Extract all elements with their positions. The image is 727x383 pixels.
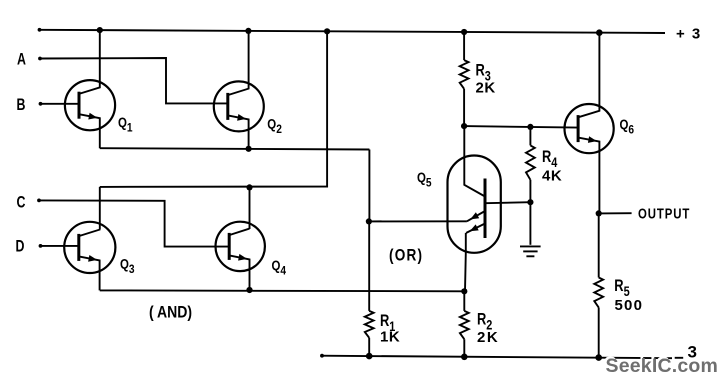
node: rail / AND-2 drop wire <box>324 28 330 34</box>
wire: input D to Q3 base <box>39 244 79 248</box>
svg-text:Q4: Q4 <box>272 258 287 278</box>
-3 supply rail <box>320 354 672 358</box>
label R2 <box>477 311 492 333</box>
label Q1 <box>118 115 133 135</box>
resistor R2 2K <box>460 311 469 339</box>
svg-text:+ 3: + 3 <box>676 25 702 42</box>
wire: R3 to node <box>463 89 465 126</box>
watermark SeekIC.com <box>604 353 718 377</box>
resistor R4 4K <box>526 145 535 179</box>
label R1 <box>380 313 395 335</box>
transistor Q1 <box>65 30 115 148</box>
transistor Q3 <box>64 222 115 291</box>
wire: output stub <box>599 212 632 214</box>
ground symbol <box>520 246 541 256</box>
resistor R1 1K <box>365 311 374 338</box>
svg-text:Q6: Q6 <box>620 117 635 137</box>
node: Q4 emitter / AND-2 rail <box>246 287 252 293</box>
Q5 lower emitter with arrow <box>466 224 485 233</box>
node: -3 rail / R2 <box>461 354 468 361</box>
Q5 upper emitter with arrow <box>467 211 485 221</box>
wire: R3 node to Q6 base <box>464 126 578 128</box>
node: OUTPUT tap <box>596 210 602 216</box>
transistor Q5 (dual, OR) : envelope <box>448 156 501 253</box>
wire: R1 to -3 rail <box>368 338 370 356</box>
label Q6 <box>620 117 635 137</box>
node: Q4 collector / AND-2 top wire <box>246 184 252 190</box>
wire: R5 to -3 rail <box>598 308 600 358</box>
svg-text:Q3: Q3 <box>120 257 135 277</box>
svg-text:1K: 1K <box>380 329 400 346</box>
wire: branch down to R1 <box>368 221 370 311</box>
svg-text:C: C <box>17 194 26 212</box>
node: -3 rail / R5 <box>595 354 602 361</box>
wire: input B to Q1 base <box>39 102 79 106</box>
node: Q2 emitter / AND-1 rail <box>246 146 252 152</box>
label R3 <box>476 62 491 84</box>
wire: node down to ground <box>529 202 531 245</box>
wire: AND-1 output down and to Q5 upper emitter <box>369 150 467 222</box>
wire: R4 to ground node <box>529 180 531 202</box>
label Q4 <box>272 258 287 278</box>
node: rail / R3 <box>461 29 467 35</box>
resistor R5 500 <box>594 278 603 308</box>
svg-text:B: B <box>17 96 26 114</box>
svg-text:Q1: Q1 <box>118 115 133 135</box>
label R4 <box>542 148 557 170</box>
svg-text:Q5: Q5 <box>417 170 432 190</box>
label Q3 <box>120 257 135 277</box>
wire: +3 drop to AND-2 collectors <box>100 31 327 187</box>
node: rail / Q2 collector <box>245 28 251 34</box>
label -3 <box>675 342 697 361</box>
resistor R3 2K : wire from rail <box>463 32 465 60</box>
svg-text:A: A <box>17 51 26 69</box>
node: AND-1 output / R1 branch <box>366 218 372 224</box>
transistor Q6 <box>565 33 614 214</box>
svg-text:500: 500 <box>615 297 644 314</box>
wire: input A to Q2 base <box>38 57 228 104</box>
node: AND-2 rail / Q5 / R2 <box>461 288 467 294</box>
svg-text:4K: 4K <box>542 168 562 185</box>
node: R3 / Q5 collector / Q6 base <box>461 123 467 129</box>
node: rail / Q1 collector <box>97 27 103 33</box>
svg-text:SeekIC.com: SeekIC.com <box>606 355 719 377</box>
wire: node down to R2 <box>463 291 465 311</box>
wire: node to R4 <box>529 127 531 145</box>
transistor Q2 <box>214 31 264 149</box>
node: -3 rail / R1 <box>366 353 373 360</box>
svg-text:2K: 2K <box>476 80 496 97</box>
svg-text:( AND): ( AND) <box>149 303 192 321</box>
wire: AND-2 top wire down to Q3 collector <box>99 187 101 229</box>
Q5 base bar <box>484 179 487 239</box>
label R5 <box>614 278 629 300</box>
node: R4 top tap <box>527 124 533 130</box>
wire: Q4 collector drop <box>249 187 251 229</box>
svg-text:D: D <box>16 238 25 256</box>
Q5 collector lead from R3 node <box>464 126 485 196</box>
wire: input C to Q4 base <box>37 199 229 247</box>
node: R4 / Q5 output / ground <box>527 199 533 205</box>
wire: output node down to R5 <box>598 213 600 277</box>
label Q2 <box>267 116 282 136</box>
svg-text:OUTPUT: OUTPUT <box>638 205 690 222</box>
resistor R3 zigzag <box>460 60 469 89</box>
wire: AND-2 emitter rail (Q3,Q4 emitters) <box>100 289 465 292</box>
label Q5 <box>417 170 432 190</box>
wire: R2 to -3 rail <box>463 339 465 357</box>
wire: Q5 lower emitter down to R2 node <box>464 233 467 291</box>
+3 supply rail <box>38 28 665 33</box>
Q5 output lead to R4/ground node <box>485 202 530 203</box>
node: rail / Q6 collector <box>596 29 603 36</box>
wire: AND-1 emitter rail (Q1,Q2 emitters) <box>100 148 370 149</box>
svg-text:(OR): (OR) <box>389 246 423 265</box>
svg-text:2K: 2K <box>477 329 499 346</box>
transistor Q4 <box>216 222 265 290</box>
svg-text:Q2: Q2 <box>267 116 282 136</box>
